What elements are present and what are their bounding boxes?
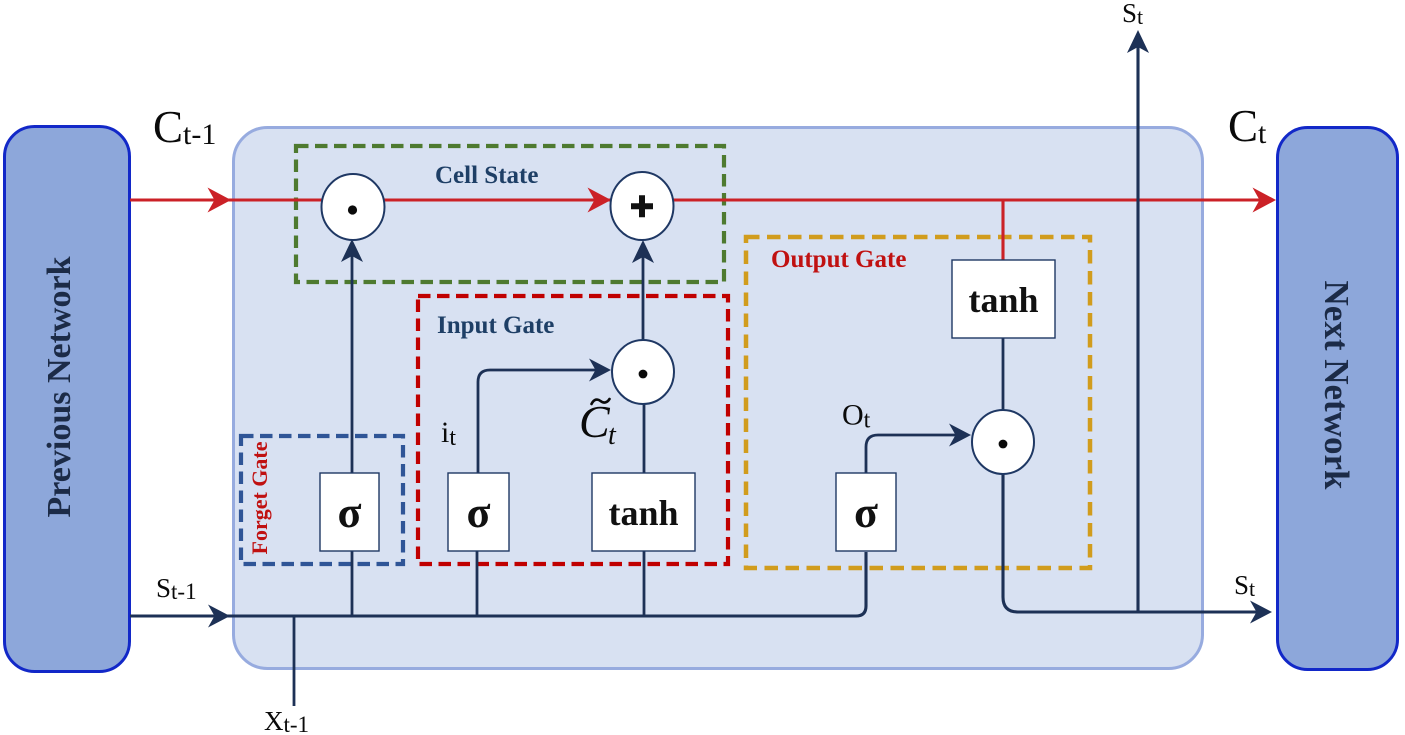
output gate dashed box [746, 237, 1090, 568]
wire bottom input rail [130, 552, 866, 616]
wire St upward [1136, 34, 1139, 612]
svg-text:Xt-1: Xt-1 [264, 706, 309, 735]
forget gate dashed box [241, 436, 403, 564]
svg-text:t: t [608, 420, 617, 451]
svg-text:σ: σ [338, 488, 362, 537]
svg-text:Output Gate: Output Gate [771, 246, 906, 273]
svg-text:Forget Gate: Forget Gate [247, 441, 272, 554]
block Previous Network [5, 127, 130, 672]
red arrowhead into plus node [588, 188, 612, 213]
svg-text:Next Network: Next Network [1317, 281, 1356, 490]
svg-text:Previous Network: Previous Network [41, 256, 78, 517]
svg-text:tanh: tanh [968, 280, 1038, 320]
wire Xt-1 drop [293, 616, 296, 706]
tanh box output [952, 260, 1055, 338]
svg-text:Ct-1: Ct-1 [153, 102, 216, 152]
wire stub to input sigma [476, 551, 479, 616]
wire stub to forget sigma [351, 551, 354, 616]
svg-text:Input Gate: Input Gate [437, 312, 554, 339]
tanh box input [592, 473, 695, 551]
svg-text:St-1: St-1 [156, 573, 197, 604]
LSTM cell body [234, 128, 1203, 669]
wire stub to input tanh [643, 551, 646, 616]
svg-text:Cell State: Cell State [435, 162, 538, 189]
node dot-product (input gate) [612, 340, 674, 404]
svg-text:Ct: Ct [1228, 101, 1267, 151]
wire output dot node down and right to St output [1003, 473, 1268, 612]
wire input tanh to dot node [643, 404, 646, 473]
sigma box output [836, 473, 896, 551]
wire input sigma up and right to dot node [478, 370, 600, 473]
svg-text:tanh: tanh [608, 493, 678, 533]
svg-text:St: St [1122, 0, 1143, 29]
wire output sigma up right to dot node [866, 435, 960, 473]
label C~t [579, 396, 617, 451]
svg-text:σ: σ [854, 488, 878, 537]
sigma box input [448, 473, 509, 551]
node dot-product (cell state left) [322, 174, 385, 240]
wire input dot node to plus node [642, 244, 645, 341]
svg-text:St: St [1234, 570, 1255, 601]
block Next Network [1278, 128, 1398, 670]
node dot-product (output gate) [972, 410, 1034, 474]
wire red cell-state line [130, 200, 1273, 260]
navy arrowhead on input rail [208, 605, 230, 628]
wire output tanh to dot node [1002, 338, 1005, 411]
input gate dashed box [418, 296, 728, 564]
cell state dashed box [296, 146, 724, 282]
sigma box forget [320, 473, 379, 551]
wire forget sigma to dot node [351, 243, 354, 473]
red arrowhead into cell [208, 188, 232, 213]
red arrowhead into Next Network [1253, 188, 1277, 213]
svg-text:σ: σ [467, 488, 491, 537]
svg-text:C: C [579, 396, 611, 447]
node plus (cell state right) [611, 172, 674, 240]
